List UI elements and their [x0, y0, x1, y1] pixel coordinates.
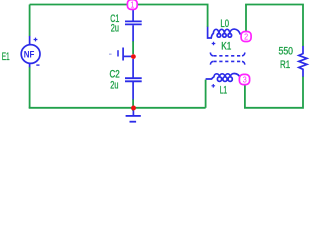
svg-text:1: 1: [130, 1, 134, 10]
svg-text:2u: 2u: [111, 22, 119, 34]
svg-text:L1: L1: [220, 85, 227, 97]
svg-text:2u: 2u: [110, 80, 118, 92]
svg-text:K1: K1: [221, 40, 231, 52]
svg-text:550: 550: [279, 45, 294, 57]
svg-text:R1: R1: [280, 59, 290, 71]
svg-text:L0: L0: [220, 18, 229, 30]
svg-text:E1: E1: [2, 51, 10, 63]
svg-text:2: 2: [244, 33, 248, 42]
svg-text:NF: NF: [24, 50, 35, 60]
svg-text:3: 3: [243, 76, 247, 85]
